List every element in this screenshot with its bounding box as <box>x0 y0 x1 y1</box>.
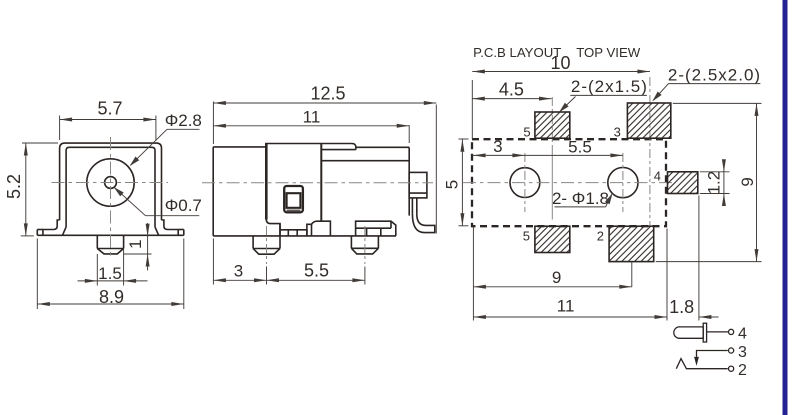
pcb hole right vertical centerline <box>622 153 624 212</box>
svg-text:5.7: 5.7 <box>97 98 122 118</box>
svg-text:3: 3 <box>493 137 502 156</box>
front view horizontal centerline <box>52 182 169 184</box>
pad 4 hatched <box>668 172 698 194</box>
svg-text:5.5: 5.5 <box>304 261 329 281</box>
side view switch window outer <box>284 186 303 212</box>
side view housing top and raised tab <box>265 144 356 150</box>
svg-text:2-(2x1.5): 2-(2x1.5) <box>571 77 648 96</box>
dimension 1.5 pin width <box>78 250 148 286</box>
label 2-(2.5x2.0) with leader <box>652 65 761 101</box>
front view center pin hole circle <box>105 177 117 189</box>
pad 5 bottom hatched <box>535 226 570 252</box>
dimension 4.5 <box>472 79 551 100</box>
svg-text:Φ2.8: Φ2.8 <box>165 111 202 130</box>
svg-text:5: 5 <box>523 229 530 244</box>
svg-text:4: 4 <box>654 168 661 183</box>
svg-text:5.5: 5.5 <box>568 137 592 156</box>
dimension 12.5 overall length <box>213 83 436 233</box>
label 2-dia1.8 with leader <box>552 189 613 208</box>
svg-text:9: 9 <box>738 177 757 186</box>
side view rear pin <box>351 236 378 254</box>
svg-text:1.8: 1.8 <box>669 297 694 317</box>
svg-text:5: 5 <box>443 180 462 189</box>
svg-text:9: 9 <box>552 268 561 287</box>
schematic pin 2 wire with spring contact <box>676 359 727 369</box>
svg-text:11: 11 <box>303 108 321 127</box>
dimension 10 <box>472 53 650 139</box>
label dia 0.7 with leader <box>114 187 202 216</box>
svg-text:Φ0.7: Φ0.7 <box>165 196 202 215</box>
front view body outline <box>43 143 178 235</box>
pad 2 hatched <box>609 226 654 261</box>
svg-text:11: 11 <box>557 297 575 316</box>
side view switch window inner <box>287 193 301 208</box>
dimension 5.5 pin pitch <box>267 261 365 285</box>
side view bottom ledge and teeth <box>266 220 330 236</box>
dimension 1.8 bottom right <box>667 196 719 321</box>
svg-text:2: 2 <box>597 229 604 244</box>
side view switch window bottom line <box>287 209 301 211</box>
schematic pin 3 terminal circle <box>729 348 734 353</box>
label dia 2.8 with leader <box>130 111 202 166</box>
front view barrel hole circle <box>87 159 134 206</box>
side view body right edge <box>408 147 410 215</box>
svg-text:5.2: 5.2 <box>4 174 24 199</box>
pad 3 centerline / 10 extension <box>649 77 651 226</box>
front view center pin below body <box>97 235 123 254</box>
svg-text:3: 3 <box>614 124 621 139</box>
front view bottom edge <box>37 234 184 236</box>
schematic pin 3 wire with bend <box>697 351 728 359</box>
svg-text:1.5: 1.5 <box>98 264 122 283</box>
side view housing rear edge <box>320 144 322 222</box>
side view rear pin centerline <box>364 226 366 264</box>
pad 5 top hatched <box>535 112 570 138</box>
svg-text:2- Φ1.8: 2- Φ1.8 <box>552 189 609 208</box>
dimension 8.9 bottom <box>37 239 184 310</box>
dimension 9 horizontal bottom <box>473 227 631 321</box>
svg-text:3: 3 <box>234 262 243 281</box>
svg-text:TOP VIEW: TOP VIEW <box>576 45 641 60</box>
svg-text:P.C.B LAYOUT: P.C.B LAYOUT <box>473 45 561 60</box>
schematic pin 3 switch arrow <box>694 357 699 366</box>
side view baseline bottom edge <box>213 235 396 237</box>
pcb hole right <box>608 168 638 198</box>
pcb hole left vertical centerline <box>524 153 526 212</box>
svg-text:5: 5 <box>523 124 530 139</box>
dimension 3 hole offset <box>472 137 525 157</box>
side view front barrel <box>213 144 266 236</box>
svg-text:2: 2 <box>738 362 747 379</box>
dimension 5 outline height <box>443 139 469 226</box>
side view horizontal centerline <box>202 182 433 184</box>
side view shield top edge <box>356 146 409 148</box>
side view bent pin hook <box>412 198 434 233</box>
side view rear standoff and teeth <box>356 221 396 236</box>
schematic pin 4 terminal circle <box>729 329 734 334</box>
svg-text:10: 10 <box>550 53 570 73</box>
schematic flange crossbar <box>703 323 706 342</box>
dimension 5.2 left <box>4 143 58 236</box>
pcb layout dashed outline <box>472 139 666 226</box>
side view right solder lug block <box>409 172 427 198</box>
front view right mounting tab <box>178 230 184 236</box>
svg-text:3: 3 <box>738 344 747 361</box>
front view vertical centerline <box>110 137 112 259</box>
side view shield step line <box>321 160 409 162</box>
dimension 11 body length <box>213 108 409 144</box>
side view front pin centerline <box>266 226 268 264</box>
dimension 5.5 hole pitch <box>525 137 623 157</box>
dimension 3 pin offset <box>213 239 266 285</box>
svg-text:8.9: 8.9 <box>99 287 124 307</box>
schematic barrel center pin <box>674 327 703 338</box>
dimension 1 pin height <box>124 223 152 271</box>
svg-text:2-(2.5x2.0): 2-(2.5x2.0) <box>668 65 761 84</box>
dimension 5.7 top <box>60 98 156 140</box>
schematic pin 4 wire <box>707 331 729 333</box>
dimension 1.2 pad height <box>700 159 730 206</box>
front view left mounting tab <box>37 230 43 236</box>
label 2-(2x1.5) with leader <box>559 77 648 112</box>
schematic pin 2 terminal circle <box>729 366 734 371</box>
dimension 11 bottom <box>473 297 667 320</box>
svg-text:1: 1 <box>126 239 145 248</box>
pad 5 top centerline <box>551 97 553 146</box>
page border navy bar right <box>783 0 788 415</box>
svg-text:12.5: 12.5 <box>310 83 345 103</box>
svg-text:1.2: 1.2 <box>705 171 724 195</box>
pcb hole left <box>510 168 540 198</box>
pad 3 hatched <box>627 103 670 138</box>
svg-text:4.5: 4.5 <box>499 79 524 99</box>
pcb horizontal centerline <box>463 182 676 184</box>
side view front pin <box>253 224 280 255</box>
dimension 9 vertical right <box>656 103 762 261</box>
svg-text:4: 4 <box>738 325 747 342</box>
